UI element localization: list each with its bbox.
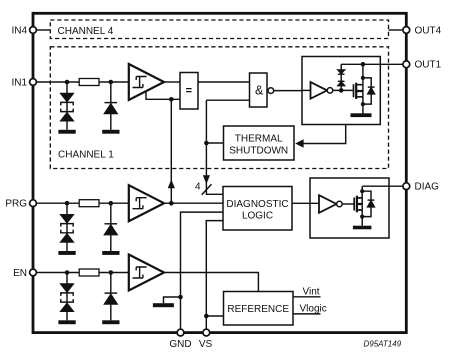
internal ground symbol <box>164 297 181 303</box>
node drain-diode <box>361 76 365 80</box>
arrow down on status bus <box>203 175 210 184</box>
wire trigger1 lower tap to = box lower input <box>146 91 180 99</box>
ground bar M1 source <box>351 113 372 117</box>
wire & bubble to output stage <box>274 90 302 92</box>
gate clamp diode pair <box>338 64 345 90</box>
svg-text:IN4: IN4 <box>11 25 27 36</box>
node IN1-a <box>65 80 70 85</box>
EN clamp diode branch <box>102 273 119 325</box>
wire EN input line <box>36 272 128 274</box>
wire = box output to & box <box>198 81 250 83</box>
wire status bus lower & input <box>206 99 249 101</box>
svg-text:OUT4: OUT4 <box>415 25 442 36</box>
IN1 ESD zener pair branch <box>58 82 75 134</box>
svg-text:CHANNEL 4: CHANNEL 4 <box>58 26 114 37</box>
wire VS into diagnostic logic <box>206 221 223 330</box>
node source-diode <box>361 102 365 106</box>
wire OUT1 drain rail to pin <box>341 63 403 65</box>
svg-text:=: = <box>186 85 192 97</box>
body diode D1 <box>363 78 375 104</box>
svg-text:LOGIC: LOGIC <box>242 211 273 222</box>
wire PRG input line <box>36 202 128 204</box>
MOSFET M2 diag <box>354 186 362 226</box>
node thermal tap junction <box>204 141 209 146</box>
bubble inverter2 <box>337 201 343 207</box>
resistor EN series <box>79 269 99 276</box>
schmitt trigger PRG <box>129 185 164 221</box>
svg-text:DIAG: DIAG <box>415 182 440 193</box>
PRG clamp diode branch <box>102 203 119 255</box>
wire Vint output <box>293 296 321 298</box>
svg-text:THERMAL: THERMAL <box>235 133 283 144</box>
svg-text:OUT1: OUT1 <box>415 60 442 71</box>
svg-text:REFERENCE: REFERENCE <box>227 304 289 315</box>
wire EN trigger output to reference <box>164 273 258 292</box>
inverter U4 <box>319 195 337 213</box>
pin OUT1 <box>403 61 410 68</box>
wire IN4 pin to channel4 box <box>36 29 50 31</box>
wire inverter1 to gate <box>333 89 353 91</box>
wire PRG feedback vertical to channel1 comparator <box>170 99 172 203</box>
diag output stage box <box>310 178 389 238</box>
diagnostic logic box <box>223 187 292 231</box>
svg-text:&: & <box>255 84 264 98</box>
node OUT1 rail <box>361 62 366 67</box>
PRG ESD zener pair branch <box>58 203 75 255</box>
node GND internal <box>178 295 183 300</box>
svg-text:EN: EN <box>13 268 27 279</box>
IN1 clamp diode branch <box>102 82 119 134</box>
node PRG-b <box>109 201 114 206</box>
wire thermal shutdown input <box>206 142 223 144</box>
channel 4 dashed box <box>50 20 388 39</box>
resistor IN1 series <box>79 79 99 86</box>
comparator box U= <box>180 73 198 110</box>
svg-text:Vint: Vint <box>303 287 320 298</box>
wire trigger1 output to = box <box>164 81 180 83</box>
svg-text:Vlogic: Vlogic <box>300 304 327 315</box>
node = lower input junction <box>169 97 174 102</box>
svg-text:PRG: PRG <box>5 199 27 210</box>
wire PRG trigger output to diagnostic logic <box>164 202 223 204</box>
wire GND sense into diagnostic logic <box>181 212 224 329</box>
arrowhead into thermal shutdown <box>295 139 303 147</box>
bus width slash <box>202 184 212 195</box>
pin VS <box>203 329 210 336</box>
node PRG output junction <box>169 201 174 206</box>
svg-text:DIAGNOSTIC: DIAGNOSTIC <box>226 199 288 210</box>
power MOSFET M1 <box>354 64 363 113</box>
svg-text:VS: VS <box>199 339 213 350</box>
node IN1-b <box>109 80 114 85</box>
schmitt trigger IN1 <box>129 64 164 100</box>
wire VS to reference <box>206 315 223 317</box>
resistor PRG series <box>79 200 99 207</box>
wire diag drain to DIAG pin <box>362 185 403 187</box>
svg-text:SHUTDOWN: SHUTDOWN <box>229 145 288 156</box>
node EN-b <box>109 270 114 275</box>
channel 1 dashed box <box>50 47 388 169</box>
output stage box channel1 <box>302 57 380 125</box>
node diag drain-diode <box>360 189 364 193</box>
bubble inverter1 <box>327 88 333 94</box>
wire temperature sense to thermal shutdown <box>299 125 346 144</box>
node VS internal <box>204 314 209 319</box>
wire Vlogic output <box>293 313 321 315</box>
outer IC boundary box <box>33 13 406 332</box>
svg-text:CHANNEL 1: CHANNEL 1 <box>58 150 114 161</box>
pin IN4 <box>30 27 37 34</box>
wire IN1 input line <box>36 81 128 83</box>
node PRG-a <box>65 201 70 206</box>
wire diagnostic logic to diag stage <box>292 202 319 204</box>
EN ESD zener pair branch <box>58 273 75 325</box>
schmitt trigger EN <box>129 255 164 291</box>
pin DIAG <box>403 183 410 190</box>
inverter U3 <box>311 82 328 99</box>
svg-text:4: 4 <box>195 182 201 193</box>
pin GND <box>177 329 184 336</box>
node gate clamp junction <box>339 88 344 93</box>
wire status bus vertical to diagnostic logic <box>206 100 223 194</box>
node diag source-diode <box>360 215 364 219</box>
body diode D2 <box>362 191 374 216</box>
and gate box U& <box>250 73 268 107</box>
svg-text:D95AT149: D95AT149 <box>364 339 402 348</box>
pin IN1 <box>30 79 37 86</box>
wire channel4 box to OUT4 pin <box>389 29 404 31</box>
thermal shutdown box <box>224 126 295 160</box>
pin PRG <box>30 200 37 207</box>
arrow up on PRG feedback wire <box>168 179 175 188</box>
reference box <box>224 292 294 326</box>
bubble on & output <box>268 88 274 94</box>
svg-text:GND: GND <box>169 339 191 350</box>
pin OUT4 <box>403 27 410 34</box>
ground bar M2 source <box>353 226 372 230</box>
pin EN <box>30 269 37 276</box>
svg-text:IN1: IN1 <box>11 77 27 88</box>
node EN-a <box>65 270 70 275</box>
wire inverter2 to gate <box>342 203 354 205</box>
wire into inverter1 <box>302 89 311 91</box>
